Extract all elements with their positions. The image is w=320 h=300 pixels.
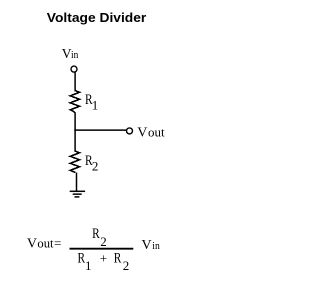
wire R1 to junction to R2 — [74, 112, 76, 151]
svg-text:2: 2 — [100, 234, 107, 249]
formula denominator R1 + R2 — [78, 251, 130, 274]
svg-text:1: 1 — [92, 98, 99, 113]
svg-text:V: V — [137, 126, 147, 141]
formula Vin factor — [142, 238, 161, 253]
wire R2 to ground — [76, 173, 78, 192]
wire junction to Vout terminal — [74, 129, 126, 131]
svg-text:Voltage Divider: Voltage Divider — [47, 10, 147, 25]
terminal Vin — [71, 66, 77, 72]
svg-text:V: V — [142, 238, 152, 253]
formula fraction bar — [70, 248, 134, 250]
svg-text:R: R — [114, 251, 122, 267]
ground — [70, 191, 85, 197]
resistor R2 — [70, 151, 79, 173]
svg-text:V: V — [27, 237, 37, 252]
svg-text:in: in — [71, 49, 79, 61]
resistor R1 — [70, 91, 79, 113]
svg-text:out: out — [37, 237, 54, 251]
svg-text:out: out — [148, 125, 165, 140]
formula Vout = — [27, 236, 61, 252]
wire Vin terminal to R1 — [74, 72, 76, 90]
svg-text:+: + — [100, 251, 107, 266]
svg-text:2: 2 — [92, 159, 99, 174]
label R1 — [85, 92, 98, 113]
terminal Vout — [127, 128, 133, 134]
formula numerator R2 — [92, 226, 107, 249]
node Vout label — [137, 125, 165, 141]
svg-text:in: in — [152, 240, 160, 252]
svg-text:R: R — [92, 226, 100, 242]
label R2 — [85, 153, 98, 174]
svg-text:2: 2 — [123, 258, 130, 273]
svg-text:=: = — [54, 236, 61, 251]
node Vin label — [62, 46, 79, 61]
svg-text:1: 1 — [85, 258, 92, 273]
